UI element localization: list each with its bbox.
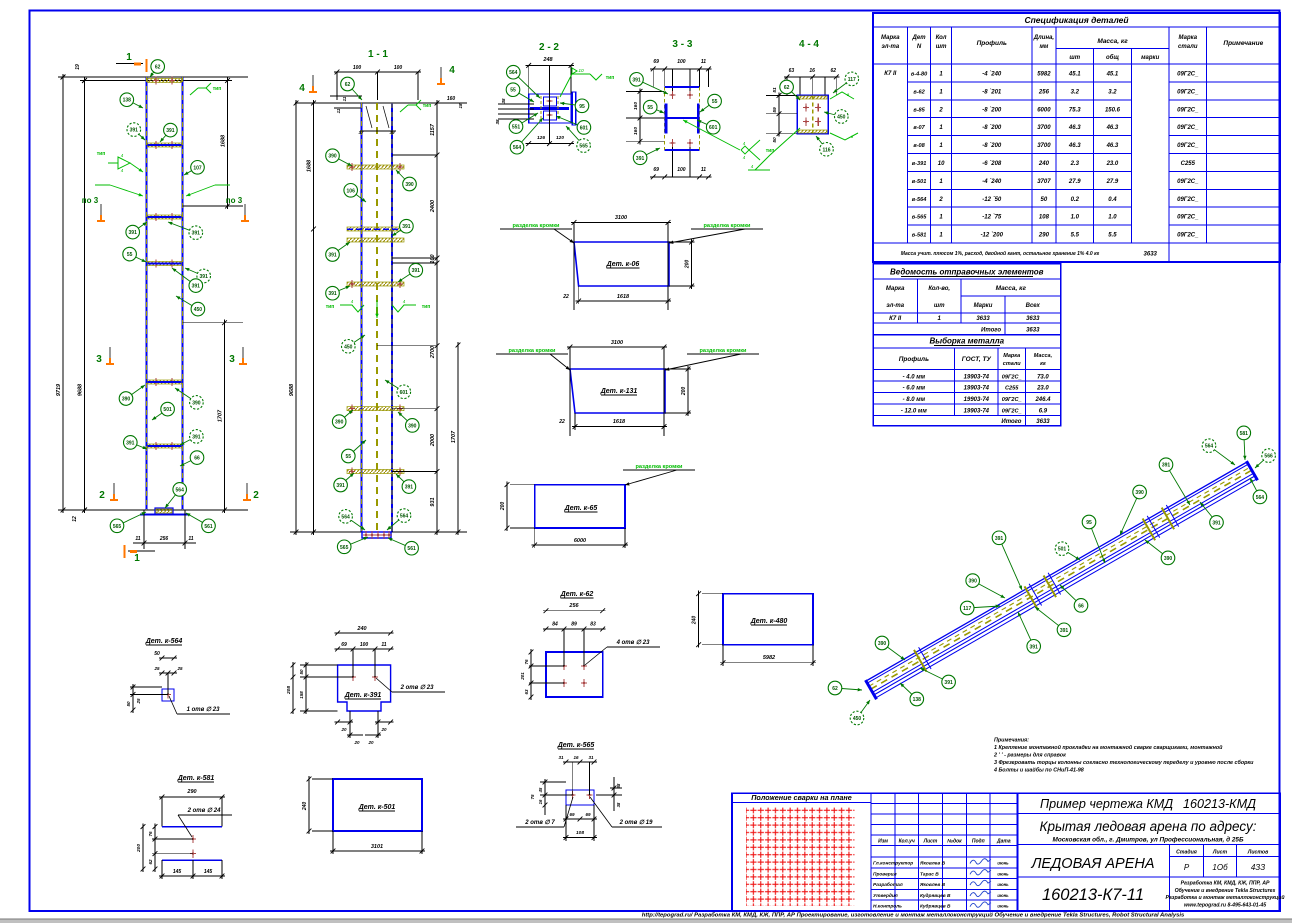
svg-text:в-564: в-564 [912,197,927,203]
svg-text:3.2: 3.2 [1108,89,1117,95]
svg-text:июнь: июнь [997,893,1009,898]
svg-text:4 - 4: 4 - 4 [799,39,819,50]
svg-text:95: 95 [579,104,585,110]
svg-text:9688: 9688 [78,383,84,396]
svg-text:3: 3 [229,354,235,365]
svg-text:09Г2С_: 09Г2С_ [1177,125,1199,131]
svg-text:38: 38 [495,119,500,125]
svg-text:55: 55 [647,105,653,111]
svg-text:09Г2С_: 09Г2С_ [1177,197,1199,203]
svg-text:391: 391 [1030,644,1039,650]
svg-text:Крытая ледовая арена по адресу: Крытая ледовая арена по адресу: [1040,819,1257,834]
svg-text:76: 76 [148,831,153,837]
svg-text:Марка: Марка [886,286,905,292]
svg-text:Длина,: Длина, [1033,35,1055,41]
svg-text:390: 390 [1135,490,1144,496]
svg-text:Примечание: Примечание [1223,40,1263,47]
svg-text:160: 160 [633,102,639,110]
svg-text:Р: Р [1184,863,1190,872]
svg-text:50: 50 [154,651,160,657]
svg-text:46.3: 46.3 [1068,143,1081,149]
svg-text:37: 37 [358,130,364,135]
svg-text:в-501: в-501 [912,179,927,185]
svg-text:3100: 3100 [611,340,623,346]
svg-text:391: 391 [166,128,175,134]
svg-text:3700: 3700 [1037,143,1051,149]
svg-text:391: 391 [402,224,411,230]
svg-text:565: 565 [113,524,122,530]
svg-text:09Г2С_: 09Г2С_ [1177,89,1199,95]
svg-text:55: 55 [712,99,718,105]
svg-text:69: 69 [341,642,347,648]
svg-text:2: 2 [938,197,943,203]
svg-text:200: 200 [500,502,506,512]
svg-text:-12 `50: -12 `50 [982,197,1002,203]
svg-text:240: 240 [302,802,308,812]
svg-text:391: 391 [126,440,135,446]
svg-text:3707: 3707 [1037,179,1051,185]
svg-text:Лист: Лист [1212,850,1228,856]
svg-text:09Г2С_: 09Г2С_ [1002,374,1022,380]
svg-text:391: 391 [336,483,345,489]
svg-text:601: 601 [400,390,409,396]
svg-text:391: 391 [192,284,201,290]
svg-text:марки: марки [1141,55,1159,61]
svg-text:117: 117 [848,77,856,83]
svg-text:565: 565 [340,545,349,551]
svg-text:19: 19 [75,64,81,70]
svg-text:62: 62 [831,68,837,74]
svg-text:Масса,: Масса, [1034,353,1053,359]
svg-text:в-62: в-62 [913,89,925,95]
svg-text:38: 38 [616,802,621,807]
svg-text:Кудрявцев В: Кудрявцев В [920,904,951,910]
svg-text:73.0: 73.0 [1037,374,1049,380]
svg-text:84: 84 [552,622,558,628]
svg-text:Примечания:: Примечания: [994,738,1029,744]
svg-text:разделка кромки: разделка кромки [509,348,557,354]
svg-text:1688: 1688 [307,159,313,172]
svg-text:391: 391 [944,680,953,686]
svg-text:564: 564 [400,514,409,520]
svg-text:62: 62 [832,686,838,692]
svg-text:Разработал: Разработал [873,881,903,888]
svg-text:3101: 3101 [371,844,383,850]
svg-text:201: 201 [520,672,525,681]
svg-text:391: 391 [129,230,138,236]
svg-text:20: 20 [340,727,347,732]
svg-text:391: 391 [1060,628,1069,634]
svg-text:9688: 9688 [289,383,295,396]
svg-text:Дет. к-65: Дет. к-65 [564,505,598,512]
svg-text:45.1: 45.1 [1106,72,1119,78]
svg-text:1688: 1688 [221,134,227,147]
svg-text:www.tepograd.ru 8-495-643: www.tepograd.ru 8-495-643-01-45 [1184,902,1266,908]
svg-text:Марка: Марка [1179,35,1198,41]
svg-text:200: 200 [685,260,691,270]
svg-text:3633: 3633 [1144,252,1158,258]
svg-text:3700: 3700 [1037,125,1051,131]
svg-text:564: 564 [509,70,518,76]
svg-text:19903-74: 19903-74 [964,386,990,392]
svg-text:10: 10 [938,161,945,167]
svg-text:Масса учит. плюсом 1%, расход,: Масса учит. плюсом 1%, расход, двойной к… [901,250,1100,257]
svg-text:2 отв ∅ 23: 2 отв ∅ 23 [400,684,435,691]
svg-text:2000: 2000 [430,434,436,447]
svg-text:501: 501 [1058,547,1067,553]
svg-text:К7 II: К7 II [884,71,896,77]
svg-text:290: 290 [186,789,196,795]
svg-text:25: 25 [153,666,160,671]
svg-text:в-4-80: в-4-80 [911,72,928,78]
svg-text:2 ’ ’ - размеры для справок: 2 ’ ’ - размеры для справок [993,753,1066,759]
svg-text:38: 38 [616,783,621,788]
svg-text:46.3: 46.3 [1068,125,1081,131]
svg-text:2 отв ∅ 19: 2 отв ∅ 19 [619,819,654,826]
svg-text:390: 390 [969,579,978,585]
svg-text:2: 2 [938,107,943,113]
svg-text:6.9: 6.9 [1039,409,1048,415]
svg-text:общ: общ [1106,54,1119,61]
svg-text:391: 391 [192,434,201,440]
svg-text:248: 248 [542,57,553,63]
svg-text:10: 10 [578,68,584,74]
svg-text:1.0: 1.0 [1108,215,1117,221]
svg-text:Всех: Всех [1026,303,1041,309]
svg-text:120: 120 [556,135,564,141]
svg-text:тип: тип [97,151,106,157]
svg-text:3633: 3633 [976,316,990,322]
svg-text:Профиль: Профиль [899,356,929,363]
svg-text:шт: шт [934,303,945,309]
svg-text:Спецификация деталей: Спецификация деталей [1024,15,1129,25]
svg-text:450: 450 [837,115,846,121]
svg-text:6000: 6000 [574,538,586,544]
svg-text:108: 108 [1039,215,1050,221]
svg-text:тип: тип [213,86,222,92]
svg-text:1: 1 [126,52,132,63]
svg-text:4ЗЗ: 4ЗЗ [1251,863,1265,872]
svg-text:564: 564 [513,145,522,151]
svg-text:391: 391 [328,291,337,297]
svg-text:Лист: Лист [923,839,938,845]
svg-text:9719: 9719 [56,383,62,396]
svg-text:75.3: 75.3 [1069,107,1081,113]
svg-text:по 3: по 3 [226,196,243,205]
svg-text:Кол: Кол [936,35,947,41]
svg-text:2: 2 [99,490,105,501]
svg-text:5.5: 5.5 [1071,233,1080,239]
svg-text:4 отв ∅ 23: 4 отв ∅ 23 [616,639,651,646]
svg-text:50: 50 [1041,197,1048,203]
svg-text:100: 100 [677,167,686,173]
svg-text:391: 391 [412,268,421,274]
svg-text:5982: 5982 [1037,72,1051,78]
svg-text:55: 55 [127,252,133,258]
svg-text:Разработка КМ, КМД, КЖ, ППР, А: Разработка КМ, КМД, КЖ, ППР, АР [1181,880,1270,887]
svg-text:Итого: Итого [1001,419,1021,425]
svg-text:200: 200 [681,387,687,397]
svg-text:23.0: 23.0 [1036,386,1049,392]
svg-text:3 Фрезеровать торцы колонны с: 3 Фрезеровать торцы колонны согласно тех… [994,759,1254,766]
svg-text:391: 391 [632,77,641,83]
svg-text:69: 69 [653,59,659,65]
svg-text:256: 256 [159,536,169,542]
svg-text:4: 4 [299,83,305,94]
svg-text:66: 66 [1078,603,1084,609]
svg-text:Выборка металла: Выборка металла [929,337,1004,346]
svg-text:разделка кромки: разделка кромки [636,464,684,470]
svg-text:- 8.0 мм: - 8.0 мм [903,397,926,403]
svg-text:69: 69 [569,812,575,817]
svg-text:100: 100 [430,254,436,263]
svg-text:-8 `200: -8 `200 [982,125,1002,131]
svg-text:в-581: в-581 [912,233,927,239]
svg-text:390: 390 [408,423,417,429]
svg-text:62: 62 [345,82,351,88]
svg-text:450: 450 [194,307,203,313]
svg-text:тип: тип [423,103,432,109]
svg-text:Марка: Марка [1003,353,1020,359]
svg-text:16: 16 [573,755,579,760]
svg-text:450: 450 [853,716,862,722]
svg-text:564: 564 [1256,495,1265,501]
svg-text:564: 564 [341,514,350,520]
svg-text:Листов: Листов [1247,850,1268,856]
svg-text:100: 100 [394,65,403,71]
svg-text:116: 116 [822,147,830,153]
svg-text:Дата: Дата [996,839,1011,845]
svg-text:тип: тип [766,148,775,154]
svg-text:138: 138 [913,697,922,703]
svg-text:Дет. к-501: Дет. к-501 [358,804,396,811]
svg-text:09Г2С_: 09Г2С_ [1177,72,1199,78]
svg-text:Дет. к-581: Дет. к-581 [177,775,215,782]
svg-text:391: 391 [200,274,209,280]
svg-text:3633: 3633 [1036,419,1050,425]
svg-text:117: 117 [963,606,971,612]
svg-text:931: 931 [430,497,436,506]
svg-text:3 - 3: 3 - 3 [672,39,692,50]
svg-text:3.2: 3.2 [1071,89,1080,95]
svg-text:391: 391 [1212,520,1221,526]
svg-text:Обучение и внедрение Tekla Str: Обучение и внедрение Tekla Structures [1175,887,1276,894]
svg-text:2.3: 2.3 [1070,161,1080,167]
svg-text:С255: С255 [1005,386,1019,392]
svg-text:№док: №док [947,839,962,845]
svg-text:46.3: 46.3 [1106,143,1119,149]
svg-text:Положение сварки на плане: Положение сварки на плане [751,793,851,802]
svg-text:2400: 2400 [430,200,436,213]
svg-text:Дет. к-565: Дет. к-565 [557,742,595,749]
svg-text:http://tepograd.ru/ Разработ: http://tepograd.ru/ Разработка КМ, КМД, … [642,912,1185,919]
svg-text:Тарас В: Тарас В [920,871,939,877]
svg-text:шт: шт [936,44,947,50]
svg-text:31: 31 [558,755,564,760]
svg-text:46.3: 46.3 [1106,125,1119,131]
svg-text:Разработка и монтаж металлокон: Разработка и монтаж металлоконструкций [1165,894,1285,901]
svg-text:4 Болты и шайбы по СНиП-41-98: 4 Болты и шайбы по СНиП-41-98 [993,767,1084,774]
svg-text:2: 2 [253,490,259,501]
svg-text:тип: тип [422,304,431,310]
svg-text:391: 391 [328,253,337,259]
svg-text:в-565: в-565 [912,215,927,221]
svg-text:Марка: Марка [881,35,900,41]
svg-text:62: 62 [784,85,790,91]
svg-text:75: 75 [530,794,535,800]
svg-text:391: 391 [405,485,414,491]
svg-text:С255: С255 [1181,161,1196,167]
svg-text:Н.контроль: Н.контроль [873,904,902,910]
svg-text:Изм: Изм [878,839,888,845]
svg-text:в-85: в-85 [913,107,925,113]
svg-text:Дет. к-391: Дет. к-391 [344,692,382,699]
svg-text:390: 390 [328,154,337,160]
svg-text:22: 22 [558,419,565,425]
svg-text:16: 16 [809,68,815,74]
svg-text:390: 390 [1164,556,1173,562]
svg-text:601: 601 [580,125,589,131]
svg-text:108: 108 [576,830,584,836]
svg-text:106: 106 [347,188,356,194]
svg-text:09Г2С_: 09Г2С_ [1177,107,1199,113]
svg-text:45.1: 45.1 [1068,72,1081,78]
svg-text:27.9: 27.9 [1106,179,1119,185]
svg-text:564: 564 [176,487,185,493]
svg-text:100: 100 [360,642,369,648]
svg-text:кг: кг [1040,361,1046,367]
svg-text:Дет. к-06: Дет. к-06 [606,261,640,268]
svg-text:тип: тип [326,304,335,310]
svg-text:2 - 2: 2 - 2 [539,42,559,53]
svg-text:59: 59 [772,107,778,113]
svg-text:1 Крепление монтажной проклад: 1 Крепление монтажной прокладки на монта… [994,744,1223,751]
svg-text:2 отв ∅ 24: 2 отв ∅ 24 [187,807,222,814]
svg-text:стали: стали [1178,44,1198,50]
svg-text:Яковлев В: Яковлев В [919,882,946,888]
svg-text:160: 160 [633,127,639,135]
svg-text:Утвердил: Утвердил [873,893,898,899]
svg-text:Дет: Дет [912,35,927,41]
svg-text:0.4: 0.4 [1108,197,1117,203]
svg-text:256: 256 [568,603,579,609]
svg-text:551: 551 [512,125,521,131]
svg-text:09Г2С_: 09Г2С_ [1002,409,1022,415]
svg-text:2 отв ∅ 7: 2 отв ∅ 7 [524,819,555,826]
svg-text:391: 391 [1162,463,1171,469]
svg-text:Стадия: Стадия [1176,850,1197,856]
svg-text:Итого: Итого [981,328,1001,334]
svg-text:-8 `200: -8 `200 [982,143,1002,149]
svg-text:Масса, кг: Масса, кг [1097,38,1128,45]
svg-text:19903-74: 19903-74 [964,409,990,415]
svg-text:стали: стали [1003,361,1021,367]
svg-text:27.9: 27.9 [1068,179,1081,185]
svg-text:450: 450 [344,344,353,350]
svg-text:12: 12 [72,516,78,522]
svg-text:158: 158 [299,691,304,699]
svg-text:разделка кромки: разделка кромки [700,348,748,354]
svg-text:55: 55 [346,454,352,460]
svg-text:Кудрявцев В: Кудрявцев В [920,893,951,899]
svg-text:Подп: Подп [972,839,985,845]
svg-text:-8 `201: -8 `201 [982,89,1002,95]
svg-text:581: 581 [1240,431,1249,437]
svg-text:3100: 3100 [615,215,627,221]
svg-text:160: 160 [447,96,456,102]
svg-text:разделка кромки: разделка кромки [513,223,561,229]
svg-text:Масса, кг: Масса, кг [996,285,1027,292]
svg-text:11: 11 [701,167,706,173]
svg-text:1 - 1: 1 - 1 [368,49,388,60]
svg-text:разделка кромки: разделка кромки [704,223,752,229]
svg-text:0.2: 0.2 [1071,197,1080,203]
svg-text:1.0: 1.0 [1071,215,1080,221]
svg-text:564: 564 [1205,444,1214,450]
svg-text:-12 `200: -12 `200 [981,233,1004,239]
svg-text:6000: 6000 [1037,107,1051,113]
svg-text:76: 76 [524,659,529,665]
svg-text:тип: тип [606,75,615,81]
svg-text:2700: 2700 [430,346,436,359]
svg-text:391: 391 [995,536,1004,542]
svg-text:290: 290 [1038,233,1050,239]
svg-text:160213-К7-11: 160213-К7-11 [1042,886,1144,904]
svg-text:11: 11 [188,536,193,542]
svg-text:1618: 1618 [617,294,630,300]
svg-text:38: 38 [501,98,506,104]
svg-text:Пример чертежа КМД 160213-КМД: Пример чертежа КМД 160213-КМД [1040,797,1256,811]
svg-text:20: 20 [380,727,387,732]
svg-text:Кол-во,: Кол-во, [928,286,950,292]
svg-text:561: 561 [407,546,416,552]
svg-text:565: 565 [579,144,588,150]
svg-text:09Г2С_: 09Г2С_ [1177,143,1199,149]
svg-text:83: 83 [590,622,596,628]
svg-text:145: 145 [204,869,213,875]
svg-text:эл-та: эл-та [886,303,904,309]
svg-text:20: 20 [367,740,374,745]
svg-text:Профиль: Профиль [977,40,1007,47]
svg-text:51: 51 [772,87,778,93]
svg-text:16: 16 [538,799,543,804]
svg-text:июнь: июнь [997,882,1009,887]
svg-text:09Г2С_: 09Г2С_ [1177,179,1199,185]
svg-text:09Г2С_: 09Г2С_ [1002,397,1022,403]
svg-text:18: 18 [458,103,463,109]
svg-text:Яковлев В: Яковлев В [919,861,946,867]
svg-text:390: 390 [878,641,887,647]
svg-text:240: 240 [356,626,366,632]
svg-text:62: 62 [155,65,161,71]
svg-text:Марки: Марки [974,303,993,309]
svg-text:150.6: 150.6 [1105,107,1121,113]
svg-text:4: 4 [449,65,455,76]
svg-text:19903-74: 19903-74 [964,397,990,403]
svg-text:240: 240 [692,616,698,626]
svg-text:22: 22 [562,294,569,300]
svg-text:31: 31 [588,755,594,760]
svg-text:N: N [917,44,922,50]
svg-text:11: 11 [336,108,341,113]
svg-text:- 12.0 мм: - 12.0 мм [901,409,927,415]
svg-text:50: 50 [299,669,304,675]
svg-text:Московская обл., г. Дмитров, у: Московская обл., г. Дмитров, ул Професси… [1053,836,1244,844]
svg-text:09Г2С_: 09Г2С_ [1177,233,1199,239]
svg-text:100: 100 [353,65,362,71]
svg-text:1707: 1707 [451,430,457,443]
svg-text:25: 25 [176,666,183,671]
